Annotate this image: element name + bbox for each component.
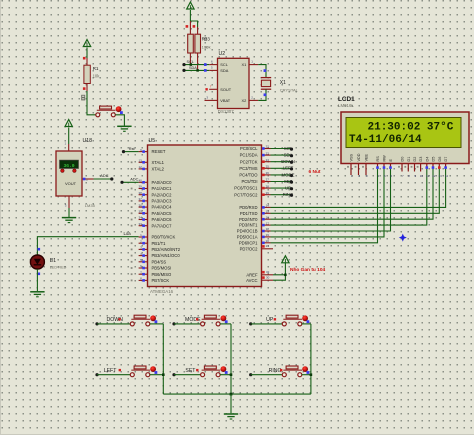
pin PD2/INT0 (16) — [239, 215, 270, 221]
svg-text:SDA: SDA — [220, 68, 228, 73]
wire RING left — [251, 374, 283, 376]
lcd pin D3 (10) — [417, 157, 424, 178]
svg-text:PB6/MISO: PB6/MISO — [152, 272, 173, 277]
svg-text:RING: RING — [283, 192, 294, 197]
pin PC4/TDO (26) — [239, 171, 270, 177]
junction common/ground — [230, 393, 233, 396]
wire SCL net — [184, 64, 209, 66]
svg-text:U5: U5 — [149, 138, 156, 144]
pin AREF (32) — [246, 270, 273, 277]
svg-text:20: 20 — [266, 239, 270, 243]
pin PA7/ADC7 (33) — [131, 222, 172, 228]
pin PB1/T1 (2) — [131, 239, 166, 245]
svg-text:RING: RING — [269, 368, 282, 374]
ground (reset button) — [117, 126, 131, 131]
origin marker (blue cross) — [399, 234, 407, 242]
pin PC7/TOSC2 (29) — [234, 191, 270, 197]
pin PA3/ADC3 (37) — [131, 197, 172, 203]
svg-text:28: 28 — [266, 184, 270, 188]
svg-text:PD2/INT0: PD2/INT0 — [239, 217, 258, 222]
ground (LED D1) — [30, 292, 44, 297]
wire ADC net to PA0 — [122, 181, 139, 183]
wire net LEFT (PC) — [271, 167, 292, 169]
svg-text:39: 39 — [138, 185, 142, 189]
junction SET/MODE — [230, 373, 233, 376]
svg-text:VOUT: VOUT — [65, 181, 77, 186]
svg-text:UP: UP — [285, 186, 291, 191]
pin-end marker R1 pin2 — [83, 87, 86, 90]
wire AREF/AVCC to VCC — [273, 263, 285, 281]
svg-text:D5: D5 — [432, 157, 436, 162]
wire UP left — [251, 323, 283, 325]
diode D1 LED-RED — [30, 255, 44, 269]
svg-text:LM016L: LM016L — [338, 103, 354, 108]
svg-text:ADC: ADC — [100, 173, 108, 178]
svg-text:LCD1: LCD1 — [338, 96, 355, 103]
lcd pin D1 (8) — [404, 157, 411, 178]
terminal dot ADC — [110, 177, 113, 180]
wire DOWN left — [97, 323, 131, 325]
wire MODE column vertical — [230, 324, 232, 394]
wire UP column vertical — [310, 324, 312, 394]
svg-text:36: 36 — [138, 203, 142, 207]
svg-text:10k: 10k — [204, 44, 210, 49]
terminal dot LEFT — [95, 373, 98, 376]
resistor R1 — [84, 58, 90, 91]
svg-text:29: 29 — [266, 191, 270, 195]
svg-text:36.0: 36.0 — [63, 163, 74, 169]
pin PD1/TXD (15) — [240, 210, 271, 216]
button RING — [282, 366, 309, 377]
svg-text:PD5/OC1A: PD5/OC1A — [237, 235, 258, 240]
svg-text:E: E — [389, 159, 393, 162]
U18 pin 1 — [68, 144, 70, 151]
svg-text:D0: D0 — [401, 157, 405, 162]
svg-text:R1: R1 — [93, 66, 99, 71]
svg-text:PC7/TOSC2: PC7/TOSC2 — [234, 192, 258, 197]
svg-text:D1: D1 — [407, 157, 411, 162]
U2 pin X1 — [249, 64, 258, 66]
terminal dot MODE — [172, 322, 175, 325]
wire VCC to U18 pin1 — [68, 128, 70, 145]
svg-text:13: 13 — [438, 174, 442, 178]
lcd pin D2 (9) — [411, 157, 418, 178]
svg-text:D2: D2 — [413, 157, 417, 162]
wire PD5/OC1A to LCD (bend x=384.0) — [271, 169, 385, 237]
svg-text:SOUT: SOUT — [220, 87, 231, 92]
pin PD7/OC2 (21) — [240, 244, 273, 251]
wire SET left — [174, 374, 201, 376]
svg-text:RW: RW — [383, 155, 387, 162]
crystal X1 — [261, 78, 271, 90]
svg-text:PA0/ADC0: PA0/ADC0 — [152, 180, 173, 185]
U2 pin SDA — [209, 69, 217, 71]
lcd LCD1 LM016L body — [341, 112, 469, 164]
wire UP right — [302, 323, 311, 325]
svg-text:DS1307: DS1307 — [218, 109, 234, 114]
svg-text:PB3/AIN1/OC0: PB3/AIN1/OC0 — [152, 253, 181, 258]
pin PC5/TDI (27) — [241, 178, 270, 184]
svg-text:PB1/T1: PB1/T1 — [152, 241, 167, 246]
pin-end markers R2 R3 — [186, 25, 189, 28]
wire PD1/TXD to LCD (bend x=439.3) — [271, 169, 440, 214]
wire SET right — [220, 374, 231, 376]
svg-text:SCL: SCL — [284, 146, 293, 151]
wire PD0/RXD to LCD (bend x=445.6) — [271, 169, 446, 208]
junction R3/SDA — [196, 69, 199, 72]
svg-text:33: 33 — [138, 222, 142, 226]
svg-text:24: 24 — [266, 158, 270, 162]
wire U18 pin3 to ground — [68, 208, 70, 217]
U2 pin VBAT — [205, 99, 218, 101]
svg-text:6 Nut: 6 Nut — [309, 169, 321, 175]
svg-text:PB5/MOSI: PB5/MOSI — [152, 266, 172, 271]
button MODE — [201, 315, 228, 326]
pin AVCC (30) — [246, 276, 273, 283]
button (reset) — [96, 106, 123, 117]
svg-text:PD6/ICP1: PD6/ICP1 — [239, 240, 258, 245]
button SET — [201, 366, 228, 377]
svg-text:VEE: VEE — [365, 153, 369, 161]
terminal dot SET — [172, 373, 175, 376]
svg-text:PC4/TDO: PC4/TDO — [239, 173, 258, 178]
svg-text:PC3/TMS: PC3/TMS — [239, 166, 257, 171]
svg-text:ATMEGA16: ATMEGA16 — [150, 289, 174, 294]
pin PB4/SS (5) — [131, 258, 167, 264]
U2 pin SCL — [209, 64, 217, 66]
wire DOWN right — [150, 323, 164, 325]
junction AREF/AVCC — [284, 274, 287, 277]
resistor R3 — [195, 27, 201, 70]
svg-text:15: 15 — [266, 210, 270, 214]
LM35 adjust buttons — [61, 169, 77, 173]
svg-text:Rst: Rst — [129, 146, 136, 151]
wire net MODE (PC) — [271, 174, 292, 176]
pin square LED bottom — [38, 273, 41, 276]
wire PD3/INT1 to LCD (bend x=426.8) — [271, 169, 427, 225]
wire net SCL (PC) — [271, 148, 292, 150]
ground (U18) — [62, 218, 76, 223]
pin squares U2 SCL SDA — [204, 63, 207, 66]
pin PD4/OC1B (18) — [237, 227, 271, 233]
svg-text:38: 38 — [138, 191, 142, 195]
terminal dot UP — [249, 322, 252, 325]
svg-text:PC5/TDI: PC5/TDI — [241, 179, 257, 184]
terminal dot SDA — [182, 69, 185, 72]
pin PB7/SCK (8) — [131, 277, 170, 283]
U18 pin 2 VOUT — [82, 178, 94, 180]
power symbol VCC (above R2 R3) — [187, 2, 194, 9]
pin PC3/TMS (25) — [239, 165, 270, 171]
power symbol VCC (above U18) — [65, 120, 72, 127]
svg-text:PA5/ADC5: PA5/ADC5 — [152, 211, 173, 216]
svg-text:PA2/ADC2: PA2/ADC2 — [152, 192, 173, 197]
wire reset button to ground — [115, 115, 124, 126]
svg-text:PB0/T0/XCK: PB0/T0/XCK — [152, 235, 176, 240]
wire ADC net (U18) — [94, 178, 112, 180]
wire LEFT left — [97, 374, 131, 376]
pin PB0/T0/XCK (1) — [139, 233, 176, 239]
pin PB3/AIN1/OC0 (4) — [131, 252, 181, 258]
svg-text:10k: 10k — [93, 73, 101, 78]
svg-text:PD3/INT1: PD3/INT1 — [239, 223, 258, 228]
svg-text:SET: SET — [185, 368, 196, 374]
svg-text:LED-RED: LED-RED — [50, 266, 67, 270]
U2 DS1307 body — [218, 58, 250, 108]
wire net UP (PC) — [271, 187, 292, 189]
wire LED to ground — [36, 269, 38, 291]
svg-text:PA1/ADC1: PA1/ADC1 — [152, 186, 173, 191]
svg-text:PA6/ADC6: PA6/ADC6 — [152, 217, 173, 222]
resistor R2 — [188, 21, 194, 65]
lcd pin VSS (1) — [347, 153, 354, 177]
svg-text:CRYSTAL: CRYSTAL — [280, 87, 299, 92]
svg-text:D1: D1 — [50, 258, 57, 264]
svg-text:RS: RS — [376, 156, 380, 162]
svg-text:PC1/SDA: PC1/SDA — [240, 153, 258, 158]
svg-text:21: 21 — [266, 244, 270, 248]
net label marker (Rst) below R1 — [81, 95, 85, 101]
junction R2/SCL — [190, 63, 193, 66]
power symbol VCC (above R1) — [83, 40, 90, 47]
pin PA0/ADC0 (40) — [138, 179, 172, 185]
svg-text:16: 16 — [266, 215, 270, 219]
svg-text:ADC: ADC — [130, 176, 138, 181]
pin square LED top — [38, 248, 41, 251]
terminal dot Rst — [122, 150, 125, 153]
wire MODE left — [174, 323, 201, 325]
svg-text:T4-11/06/14: T4-11/06/14 — [349, 134, 422, 146]
pin-end marker R1 pin1 — [83, 57, 86, 60]
svg-text:11: 11 — [426, 174, 429, 178]
svg-text:PB4/SS: PB4/SS — [152, 259, 167, 264]
svg-text:AVCC: AVCC — [246, 278, 257, 283]
pin PC6/TOSC1 (28) — [234, 184, 270, 190]
svg-text:SDA: SDA — [189, 66, 197, 70]
svg-text:PA4/ADC4: PA4/ADC4 — [152, 205, 173, 210]
power symbol VCC (AVCC) — [282, 256, 289, 263]
svg-text:17: 17 — [266, 221, 270, 225]
button LEFT — [130, 366, 157, 377]
wire button common horizontal — [163, 393, 311, 395]
svg-text:12: 12 — [138, 165, 142, 169]
svg-text:PB7/SCK: PB7/SCK — [152, 278, 170, 283]
pin PD6/ICP1 (20) — [239, 239, 271, 245]
svg-text:PD4/OC1B: PD4/OC1B — [237, 229, 258, 234]
svg-text:18: 18 — [266, 227, 270, 231]
wire PD2/INT0 to LCD (bend x=433.0) — [271, 169, 434, 219]
svg-text:PB2/AIN0/INT2: PB2/AIN0/INT2 — [152, 247, 181, 252]
wire U2.X1 to crystal top — [258, 65, 266, 78]
button DOWN — [130, 315, 157, 326]
svg-text:AREF: AREF — [246, 272, 258, 277]
wire MODE right — [220, 323, 231, 325]
U18 pin 3 — [68, 196, 70, 208]
button UP — [282, 315, 309, 326]
U2 pin X2 — [249, 99, 258, 101]
pin RESET (9) — [139, 148, 166, 154]
lcd pin D0 (7) — [398, 157, 405, 178]
svg-text:DOWN: DOWN — [281, 159, 295, 164]
pin PD5/OC1A (19) — [237, 233, 271, 239]
pin PA1/ADC1 (39) — [131, 185, 172, 191]
pin PD0/RXD (14) — [239, 204, 270, 210]
svg-text:D7: D7 — [444, 157, 448, 162]
wire crystal bottom to U2.X2 — [258, 89, 266, 100]
wire net DOWN (PC) — [271, 161, 292, 163]
svg-text:VSS: VSS — [350, 153, 354, 161]
mcu U5 ATMEGA16 body — [148, 145, 262, 287]
svg-text:LEFT: LEFT — [104, 368, 118, 374]
lcd pin D7 (14) — [444, 157, 448, 178]
svg-text:PC6/TOSC1: PC6/TOSC1 — [234, 186, 258, 191]
svg-text:SDA: SDA — [284, 153, 293, 158]
wire VCC to R2/R3 tops — [189, 10, 191, 21]
svg-text:MODE: MODE — [185, 317, 201, 323]
wire Rst net to RESET pin — [124, 151, 139, 153]
pin PD3/INT1 (17) — [239, 221, 270, 227]
wire common to ground — [230, 394, 232, 413]
svg-text:SCL: SCL — [220, 62, 228, 67]
svg-text:27: 27 — [266, 178, 270, 182]
junction LEFT/DOWN — [162, 373, 165, 376]
svg-text:SET: SET — [284, 179, 293, 184]
terminal dot DOWN — [95, 322, 98, 325]
lcd pin E (6) — [389, 159, 393, 178]
pin PA5/ADC5 (35) — [131, 210, 172, 216]
svg-text:RESET: RESET — [152, 149, 166, 154]
lcd pin D5 (12) — [432, 157, 436, 178]
lcd screen — [346, 118, 461, 148]
svg-text:40: 40 — [138, 179, 142, 183]
pin PB2/AIN0/INT2 (3) — [131, 246, 181, 252]
wire R1 bottom to reset button — [87, 91, 96, 115]
svg-text:LM35: LM35 — [85, 203, 96, 208]
svg-text:19: 19 — [266, 233, 270, 237]
svg-text:21:30:02 37°C: 21:30:02 37°C — [368, 122, 454, 134]
svg-text:12: 12 — [432, 174, 436, 178]
lcd pin VEE (3) — [362, 153, 369, 177]
svg-text:UP: UP — [266, 317, 274, 323]
pin PA2/ADC2 (38) — [131, 191, 172, 197]
lcd pin RS (4) — [376, 156, 380, 178]
junction square crystal bottom — [264, 93, 267, 96]
pin PC2/TCK (24) — [240, 158, 271, 164]
pin PB5/MOSI (6) — [131, 264, 172, 270]
junction square crystal top — [264, 69, 267, 72]
svg-text:D3: D3 — [419, 157, 423, 162]
wire LEFT right — [150, 374, 164, 376]
svg-text:PD0/RXD: PD0/RXD — [239, 205, 257, 210]
svg-text:LEFT: LEFT — [283, 166, 294, 171]
wire net RING (PC) — [271, 194, 292, 196]
svg-text:14: 14 — [445, 174, 449, 178]
wire VCC to R1 top — [86, 48, 88, 59]
pin XTAL1 (13) — [131, 159, 165, 165]
svg-text:U2: U2 — [219, 51, 226, 57]
wire DOWN column vertical — [162, 324, 164, 394]
svg-text:VBAT: VBAT — [220, 98, 230, 103]
svg-text:Nho Gan tu 104: Nho Gan tu 104 — [290, 267, 326, 273]
lcd pin D6 (13) — [438, 157, 442, 178]
lcd pin D4 (11) — [425, 157, 429, 178]
pin PA6/ADC6 (34) — [131, 216, 172, 222]
terminal dot SCL — [182, 63, 185, 66]
svg-text:10: 10 — [420, 174, 424, 178]
svg-text:R3: R3 — [204, 37, 210, 42]
terminal dot RING — [249, 373, 252, 376]
wire RING right — [302, 374, 311, 376]
svg-text:34: 34 — [138, 216, 142, 220]
svg-text:Loa: Loa — [124, 231, 132, 236]
lcd pin RW (5) — [383, 155, 387, 178]
svg-text:X1: X1 — [280, 80, 286, 86]
svg-text:D4: D4 — [425, 157, 429, 162]
svg-text:X1: X1 — [242, 62, 247, 67]
svg-text:32: 32 — [266, 270, 270, 274]
wire net SDA (PC) — [271, 154, 292, 156]
pin PC1/SDA (23) — [240, 151, 271, 157]
sensor U18 LM35 body — [56, 151, 82, 196]
pin PA4/ADC4 (36) — [131, 203, 172, 209]
svg-text:14: 14 — [266, 204, 270, 208]
svg-text:MODE: MODE — [282, 172, 295, 177]
svg-text:PC0/SCL: PC0/SCL — [240, 146, 258, 151]
svg-text:XTAL2: XTAL2 — [152, 167, 165, 172]
LM35 display — [60, 160, 79, 169]
svg-text:PD1/TXD: PD1/TXD — [240, 211, 258, 216]
svg-text:26: 26 — [266, 171, 270, 175]
wire LED to PB0 (net Led) — [37, 237, 138, 255]
svg-text:30: 30 — [266, 276, 270, 280]
svg-text:X2: X2 — [242, 98, 247, 103]
svg-text:PC2/TCK: PC2/TCK — [240, 159, 258, 164]
wire SDA net — [184, 69, 209, 71]
lcd pin VDD (2) — [355, 153, 362, 178]
terminal dot ADC (PA0) — [120, 181, 123, 184]
svg-text:D6: D6 — [438, 157, 442, 162]
svg-text:U18: U18 — [83, 138, 93, 144]
junction RING/UP — [310, 373, 313, 376]
svg-text:VDD: VDD — [357, 153, 361, 161]
svg-text:PD7/OC2: PD7/OC2 — [240, 246, 259, 251]
pin XTAL2 (12) — [131, 165, 165, 171]
ground (buttons) — [224, 414, 238, 419]
svg-text:22: 22 — [266, 145, 270, 149]
wire PD6/ICP1 to LCD (bend x=377.5) — [271, 169, 378, 243]
U2 pin SOUT — [209, 88, 217, 90]
svg-text:13: 13 — [138, 159, 142, 163]
wire PD4/OC1B to LCD (bend x=390.5) — [271, 169, 391, 231]
svg-text:23: 23 — [266, 151, 270, 155]
pin PC0/SCL (22) — [240, 145, 270, 151]
svg-text:XTAL1: XTAL1 — [152, 160, 165, 165]
svg-text:PA7/ADC7: PA7/ADC7 — [152, 223, 173, 228]
svg-text:25: 25 — [266, 165, 270, 169]
svg-text:PA3/ADC3: PA3/ADC3 — [152, 199, 173, 204]
wire net SET (PC) — [271, 181, 292, 183]
svg-text:35: 35 — [138, 210, 142, 214]
svg-text:37: 37 — [138, 197, 142, 201]
pin PB6/MISO (7) — [131, 270, 172, 276]
